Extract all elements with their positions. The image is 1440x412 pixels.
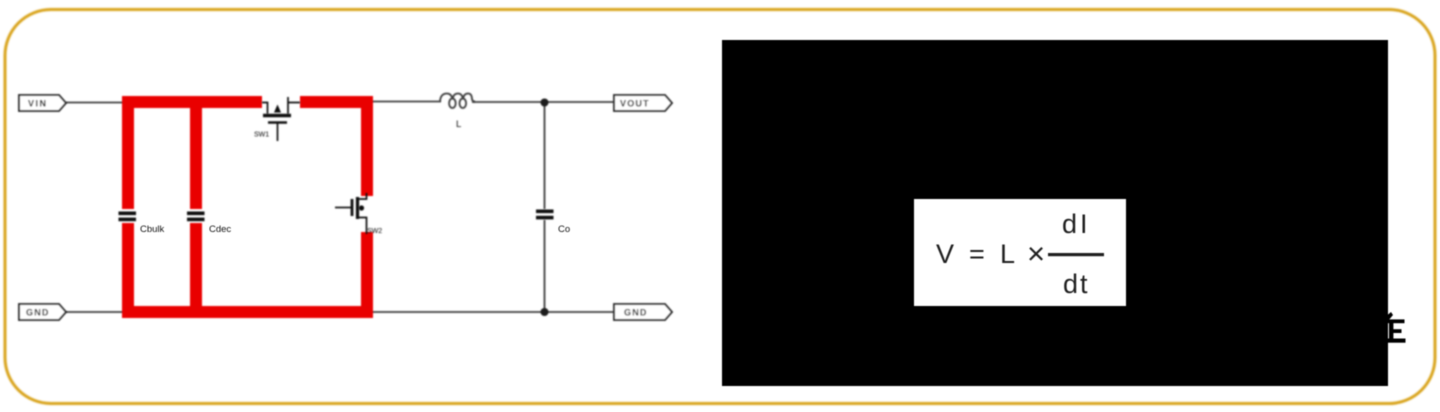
wire inductor to VOUT — [472, 101, 614, 103]
partial CJK character at panel edge — [1383, 312, 1406, 343]
svg-text:Cbulk: Cbulk — [140, 224, 165, 235]
node VOUT junction dot — [541, 99, 549, 107]
capacitor Co — [536, 210, 554, 220]
wire red left vertical lower — [122, 223, 134, 318]
red highlighted copper traces — [122, 96, 373, 318]
svg-text:GND: GND — [26, 308, 50, 318]
wire red right vertical upper — [361, 104, 373, 196]
wire red mid vertical lower — [190, 223, 202, 315]
capacitor Cbulk — [119, 212, 137, 222]
svg-text:VOUT: VOUT — [620, 99, 650, 109]
svg-text:GND: GND — [624, 308, 648, 318]
node bottom junction dot — [541, 308, 549, 316]
capacitor Cdec — [187, 212, 205, 222]
transistor SW1 (high-side FET) — [262, 97, 300, 141]
wire red bottom bus — [122, 306, 373, 318]
svg-text:SW1: SW1 — [254, 132, 269, 139]
svg-text:VIN: VIN — [28, 99, 48, 109]
wire red right vertical lower — [361, 232, 373, 312]
wire red top bus segment A — [122, 96, 262, 108]
node GND left port flag — [19, 304, 66, 320]
wire red top bus segment B — [300, 96, 373, 108]
svg-text:SW2: SW2 — [367, 228, 382, 235]
svg-text:Co: Co — [558, 224, 570, 235]
node GND right port flag — [614, 304, 672, 320]
svg-text:=: = — [969, 239, 985, 269]
svg-text:dI: dI — [1062, 209, 1091, 239]
svg-text:×: × — [1027, 236, 1045, 271]
wire Co down to bottom net — [544, 220, 546, 312]
svg-text:L: L — [456, 119, 461, 130]
SW2 body dot — [359, 205, 364, 210]
transistor SW2 (low-side FET) — [335, 193, 367, 234]
wire VIN to red bus — [66, 102, 124, 104]
wire VOUT node down to Co — [544, 102, 546, 209]
inductor L — [440, 94, 475, 108]
wire red mid vertical upper — [190, 104, 202, 209]
wire GND left flag to red bus — [66, 311, 124, 313]
svg-text:L: L — [1000, 239, 1015, 269]
wire red left vertical upper — [122, 96, 134, 209]
svg-text:V: V — [936, 239, 954, 269]
wire top bus corner to inductor — [371, 101, 441, 103]
svg-text:Cdec: Cdec — [209, 224, 231, 235]
formula white card — [914, 199, 1126, 306]
formula V = L x dI/dt — [936, 209, 1091, 299]
node VOUT port flag — [614, 95, 672, 111]
node VIN port flag — [19, 95, 66, 111]
svg-text:dt: dt — [1063, 269, 1090, 299]
wire bottom net: red bus to GND right flag — [371, 311, 614, 313]
SW1 body arrow — [274, 105, 281, 113]
black slide panel — [722, 40, 1388, 386]
